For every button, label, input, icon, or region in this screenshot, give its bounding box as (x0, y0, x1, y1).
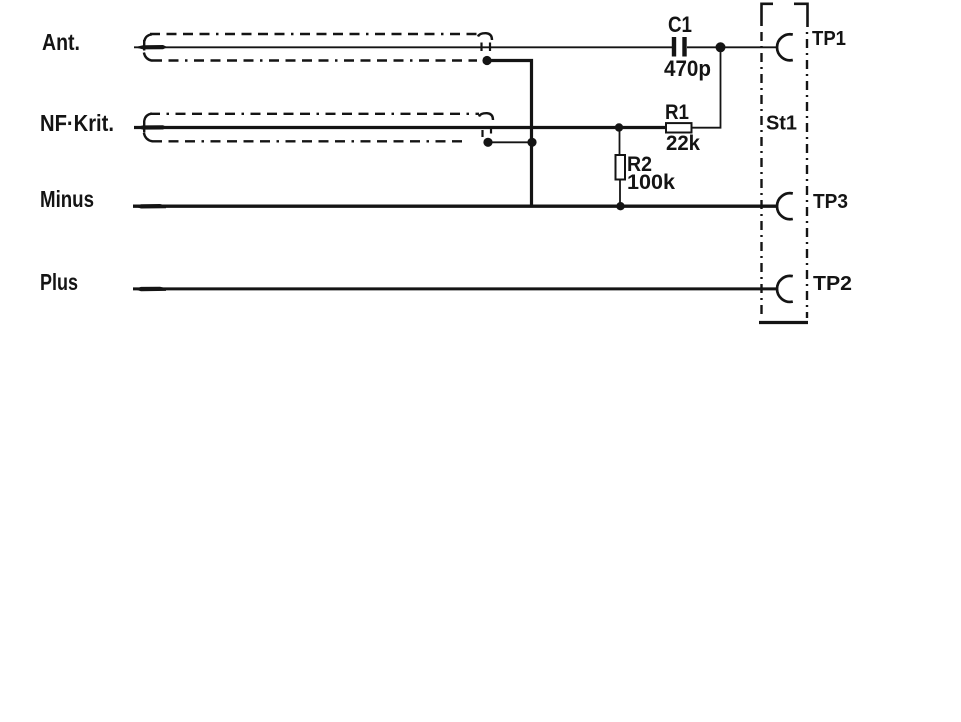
NF shield right curl (479, 113, 493, 120)
svg-text:St1: St1 (766, 113, 797, 135)
svg-text:TP1: TP1 (812, 28, 846, 50)
svg-text:100k: 100k (627, 171, 675, 194)
connector St1 bottom line (759, 321, 808, 324)
NF plug thick bar (135, 125, 168, 129)
Ant shield left bracket bottom (144, 53, 152, 61)
node C1/R1 junction (716, 42, 726, 52)
wire R2 top (619, 129, 621, 155)
Ant plug thick bar (135, 45, 168, 49)
wire NF drain to vertical (488, 141, 532, 143)
junction vertical/NF drain (527, 138, 536, 147)
Ant shield top dashed (150, 33, 479, 35)
node NF/R1/R2 junction (615, 123, 623, 131)
svg-text:TP3: TP3 (813, 191, 848, 213)
wire R1 right to node (692, 47, 721, 127)
Ant shield tick right (489, 43, 491, 52)
Ant shield bottom dashed (152, 59, 477, 61)
NF shield left bracket bottom (144, 133, 152, 142)
socket TP3 (777, 193, 793, 219)
Ant shield tick left (480, 43, 482, 52)
wire Minus left thick end (134, 204, 166, 209)
socket TP2 (777, 276, 793, 302)
svg-text:470p: 470p (664, 56, 711, 81)
NF shield left bracket top (144, 114, 152, 121)
wire C1 to TP1 (687, 46, 778, 48)
NF shield tick right (490, 129, 492, 134)
Ant shield right curl (478, 33, 492, 40)
svg-text:Plus: Plus (40, 269, 78, 295)
wire Plus left thick end (134, 287, 166, 292)
wire Ant center conductor (134, 46, 672, 48)
wire R2 bottom (619, 180, 621, 205)
NF shield top dashed (150, 113, 479, 115)
wire Minus (133, 204, 778, 207)
wire Plus (133, 287, 778, 290)
capacitor C1 (672, 37, 676, 57)
Ant shield left bracket top (144, 34, 152, 41)
NF shield tick left (481, 130, 483, 137)
Ant plug tick (143, 40, 145, 51)
NF shield bottom dashed (152, 140, 465, 142)
socket TP1 (777, 34, 793, 60)
svg-text:22k: 22k (666, 132, 700, 155)
resistor R1 (666, 123, 692, 132)
svg-text:NF·Krit.: NF·Krit. (40, 110, 114, 136)
wire shield drain to vertical (487, 61, 532, 207)
resistor R2 (616, 155, 626, 180)
svg-text:Ant.: Ant. (42, 29, 80, 55)
Ant shield drain dot (482, 56, 491, 65)
svg-text:R1: R1 (665, 101, 689, 124)
connector St1 top-right corner (794, 4, 808, 27)
connector St1 top-left corner (762, 4, 774, 26)
node R2/Minus junction (616, 202, 624, 210)
connector St1 left dash-dot (760, 32, 762, 318)
NF plug tick (143, 121, 145, 133)
svg-text:C1: C1 (668, 12, 692, 37)
svg-text:TP2: TP2 (813, 273, 852, 295)
connector St1 right dash-dot (806, 32, 808, 318)
svg-text:Minus: Minus (40, 186, 94, 212)
wire NF center conductor (134, 126, 666, 129)
NF shield drain dot (483, 138, 492, 147)
